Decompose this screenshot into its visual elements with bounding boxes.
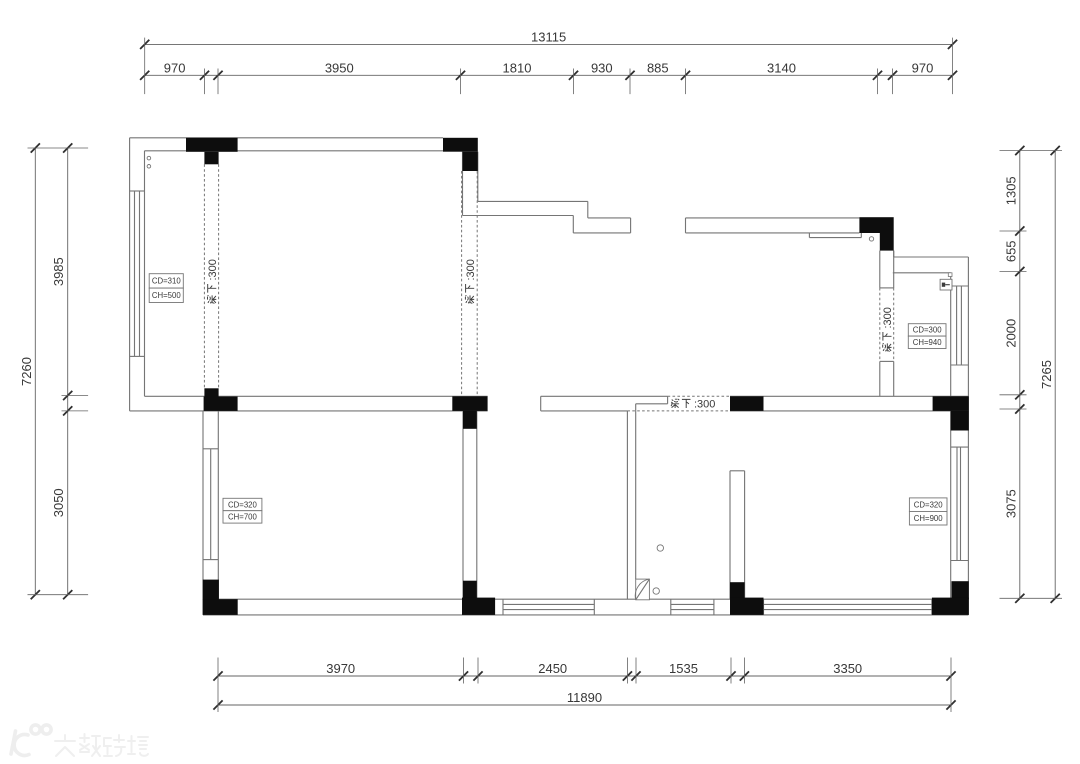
svg-text:CD=300: CD=300: [913, 326, 942, 335]
svg-text:7260: 7260: [19, 357, 34, 386]
window W1 in left wall (top-left room): [130, 190, 145, 192]
small corner mark: [948, 273, 952, 277]
svg-text:CH=940: CH=940: [913, 338, 942, 347]
middle wall: inner top line: [145, 395, 488, 397]
dimension line total 7260 (left): [34, 148, 36, 595]
extension lines top: [144, 38, 146, 95]
svg-text:2000: 2000: [1003, 319, 1018, 348]
column top-right (L): [859, 217, 893, 233]
window W5 bedroom3 right wall: [951, 446, 969, 448]
wall bedroom2/hall (150): [626, 411, 628, 599]
label CD=320 CH=700: [223, 498, 262, 510]
beam (dashed) doorway to small room: [879, 288, 881, 362]
svg-text:3140: 3140: [767, 60, 796, 75]
dimension line segments bottom: 3970/2450/1535/3350: [218, 675, 951, 677]
svg-text::300: :300: [207, 259, 219, 280]
extension lines right: [1000, 150, 1063, 152]
wall living/small-room: solid top part: [879, 251, 881, 288]
svg-text:11890: 11890: [567, 690, 602, 705]
svg-text:1810: 1810: [503, 60, 532, 75]
extension lines bottom: [217, 658, 219, 713]
top-right outer corner walls: [893, 251, 895, 257]
svg-text:CH=500: CH=500: [152, 291, 181, 300]
beam (dashed) bedroom1 right 梁下:300: [461, 171, 463, 396]
bedroom3 left wall: [730, 470, 745, 472]
column bottom hall/bedroom3 (L): [730, 582, 745, 599]
sliding panel under band C: [808, 233, 810, 238]
svg-text:3075: 3075: [1003, 489, 1018, 518]
svg-text:CH=900: CH=900: [914, 514, 943, 523]
svg-text:655: 655: [1003, 240, 1018, 262]
column bottom-right (L): [952, 581, 969, 599]
dimension line total 13115 (top): [145, 43, 953, 45]
middle wall: bottom line: [130, 410, 488, 412]
svg-text:885: 885: [647, 60, 669, 75]
svg-text:1305: 1305: [1003, 176, 1018, 205]
dimension line total 11890 (bottom): [218, 704, 951, 706]
middle wall opening cap at bedroom2 door: [540, 396, 542, 411]
bottom wall outer: [203, 614, 968, 616]
svg-text:970: 970: [164, 60, 186, 75]
stepped wall band A: [478, 200, 588, 202]
top wall outer edge: [130, 137, 443, 139]
dimension line total 7265 (right): [1054, 151, 1056, 599]
beam (dashed) left 梁下:300: [203, 164, 205, 388]
wall living/small-room: solid bottom part: [880, 360, 894, 362]
svg-text:3970: 3970: [326, 661, 355, 676]
switch circles top-left: [147, 156, 151, 160]
bottom wall inner: [219, 598, 951, 600]
circle at top-right column: [869, 237, 873, 241]
watermark logo (ghost white): [11, 725, 51, 756]
svg-text::300: :300: [882, 307, 894, 328]
label CD=310 CH=500: [149, 274, 183, 288]
column mid-right (L): [933, 396, 969, 411]
svg-text:3050: 3050: [51, 488, 66, 517]
top wall inner edge: [145, 150, 463, 152]
svg-text:CH=700: CH=700: [228, 513, 257, 522]
dimension line segments right: 1305/655/2000/3075: [1019, 151, 1021, 599]
svg-text:CD=320: CD=320: [228, 500, 257, 509]
column mid (T): [452, 396, 487, 411]
step verticals: [587, 201, 589, 218]
window W6 bedroom2 bottom: [502, 599, 504, 615]
opening 885 (no wall) then band C: [686, 217, 860, 219]
bedroom1 right wall upper stub: [462, 152, 464, 216]
extension lines left: [28, 147, 89, 149]
stepped wall band B: [588, 217, 631, 219]
svg-text:CD=320: CD=320: [914, 500, 943, 509]
watermark text 大数跨境 (ghost): [55, 734, 148, 756]
beam (dashed) over hall opening: [668, 395, 730, 397]
dimension line segments top: 970/3950/1810/930/885/3140/970: [145, 74, 953, 76]
door leaf + swing at hall: [636, 579, 650, 600]
svg-text:7265: 7265: [1039, 360, 1054, 389]
svg-text:3985: 3985: [51, 257, 66, 286]
svg-text:970: 970: [912, 60, 934, 75]
window W8 bedroom3 bottom: [763, 599, 765, 615]
dimension line segments left: 3985/3050: [67, 148, 69, 595]
pier mid (solid): [730, 396, 764, 411]
window W9 bottom-left room left wall: [203, 448, 218, 450]
wall between bottom-left rooms: [462, 411, 464, 599]
column bottom-left (L): [203, 580, 219, 600]
svg-text:1535: 1535: [669, 661, 698, 676]
label CD=300 CH=940: [908, 324, 946, 336]
left outer wall: [129, 138, 131, 411]
column top-mid (L): [443, 138, 478, 152]
svg-text::300: :300: [465, 259, 477, 280]
middle wall nib above hall: [667, 396, 669, 404]
svg-text:13115: 13115: [531, 30, 566, 45]
svg-text:3950: 3950: [325, 60, 354, 75]
column mid-left (T): [204, 388, 218, 397]
left wall of bottom rooms: [202, 411, 204, 615]
right outer wall: [967, 257, 969, 615]
svg-text:CD=310: CD=310: [152, 277, 181, 286]
label CD=320 CH=900: [909, 498, 947, 512]
column bottom mid-left (L): [463, 581, 477, 600]
small room top inner line: [893, 272, 951, 274]
svg-text::300: :300: [694, 399, 715, 411]
thermostat symbol: [940, 279, 952, 290]
window W4 small room right wall: [951, 285, 969, 287]
small room inner right line: [950, 273, 952, 599]
svg-text:930: 930: [591, 60, 613, 75]
column top-left (T): [186, 138, 238, 152]
window W7 hall bottom: [670, 599, 672, 615]
svg-text:2450: 2450: [538, 661, 567, 676]
svg-text:3350: 3350: [833, 661, 862, 676]
door handle circles hall: [657, 545, 663, 551]
left inner wall: [144, 151, 146, 396]
